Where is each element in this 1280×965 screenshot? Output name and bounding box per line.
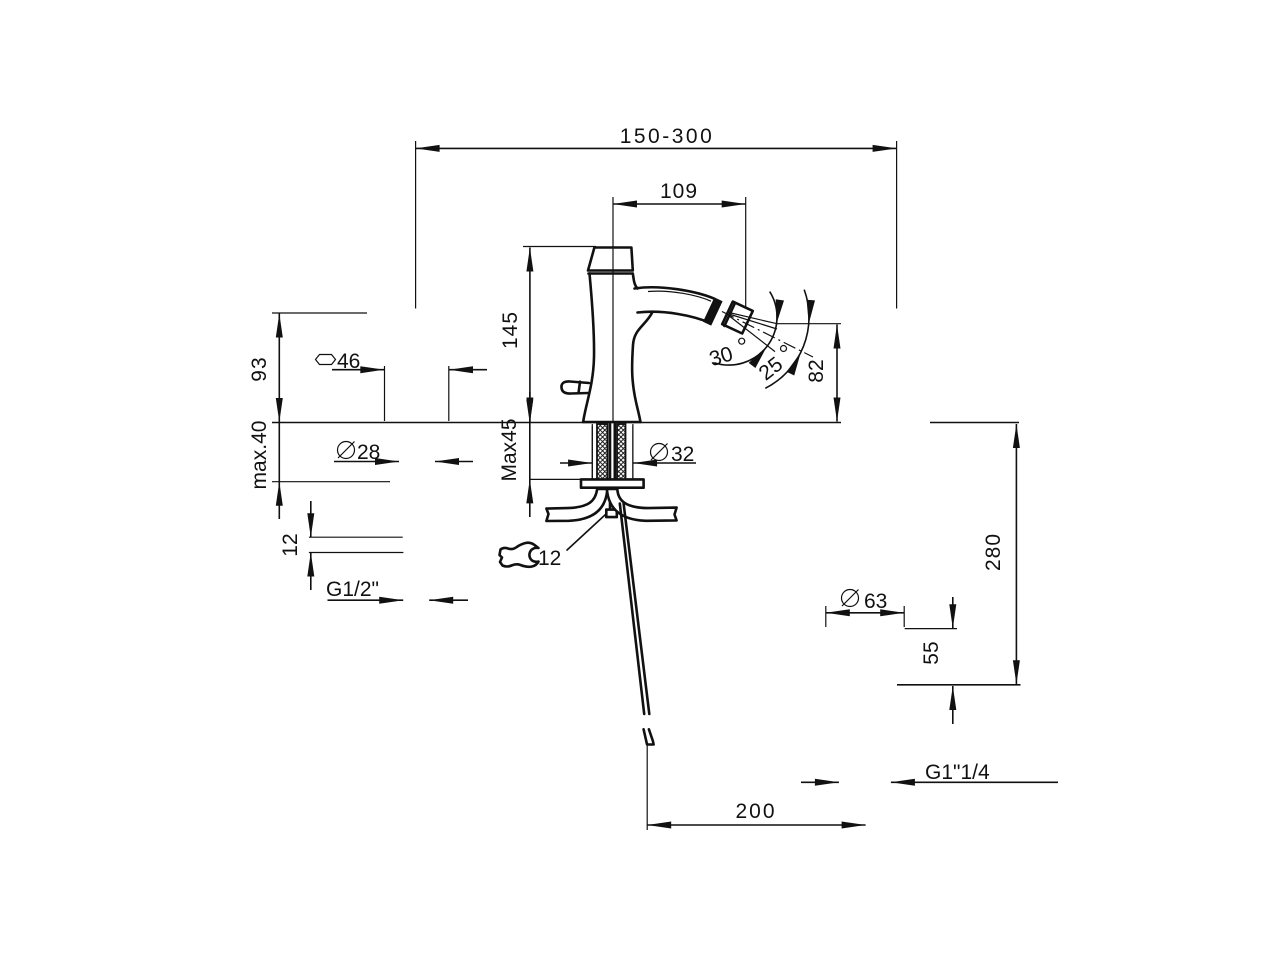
svg-text:200: 200 [735, 800, 776, 823]
dimension 82 [777, 324, 841, 422]
dimension 200 [647, 748, 865, 830]
faucet spout [635, 287, 715, 323]
spray lines [722, 312, 813, 358]
label G1"1/4 and its dimension [801, 761, 1058, 784]
angle arc 25 deg [755, 290, 815, 389]
dimension diameter 63 [826, 590, 904, 628]
svg-text:12: 12 [279, 533, 302, 556]
svg-text:G1"1/4: G1"1/4 [925, 761, 990, 784]
svg-text:12: 12 [538, 547, 561, 570]
dimension 145 [499, 247, 596, 422]
label G1/2" and its dimension [326, 578, 468, 601]
svg-text:93: 93 [248, 356, 271, 381]
faucet threaded stud [606, 424, 617, 517]
hex symbol and dimension 46 [316, 350, 488, 421]
dimension 109 [613, 180, 746, 324]
dimension diameter 32 [560, 426, 696, 478]
dimension 55 [905, 597, 957, 724]
angle arc 30 deg [707, 292, 784, 372]
dimension Max45 [498, 392, 581, 517]
faucet inlet hoses vertical [597, 424, 626, 480]
svg-text:Max45: Max45 [498, 418, 521, 481]
faucet body [583, 248, 652, 423]
faucet shank outline below deck [591, 424, 593, 479]
dimension 93 [248, 313, 367, 422]
aerator [722, 302, 753, 334]
dimension max.40 [248, 421, 390, 519]
pop-up rod knob on faucet [561, 381, 589, 393]
svg-text:G1/2": G1/2" [326, 578, 379, 601]
svg-text:280: 280 [982, 533, 1005, 571]
dimension 12 [279, 501, 403, 590]
svg-text:150-300: 150-300 [620, 125, 715, 148]
dimension diameter 28 [334, 441, 473, 464]
escutcheon flange [581, 479, 644, 487]
deck line [272, 422, 841, 424]
faucet centerline [612, 197, 614, 422]
curved hose to left [546, 489, 607, 521]
pop-up vertical rod [620, 504, 654, 749]
spray axis dash-dot 25 deg [722, 312, 813, 358]
wrench size 12 icon [500, 515, 606, 571]
svg-text:28: 28 [357, 441, 380, 464]
curved hose to right [607, 489, 677, 521]
svg-text:109: 109 [660, 180, 698, 203]
svg-text:82: 82 [805, 359, 828, 382]
svg-text:max.40: max.40 [248, 421, 271, 490]
svg-text:55: 55 [920, 641, 943, 664]
spout end band [703, 297, 723, 325]
dimension 150-300 [416, 125, 897, 309]
svg-text:145: 145 [499, 311, 522, 349]
svg-text:63: 63 [864, 590, 887, 613]
dimension 280 [897, 424, 1021, 685]
